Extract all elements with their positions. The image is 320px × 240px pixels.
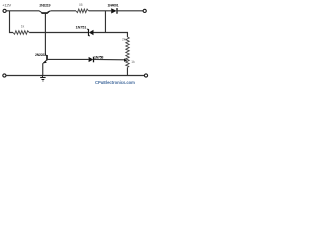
svg-text:1k: 1k (21, 25, 25, 29)
potentiometer R3 (2k) vertical zigzag (126, 37, 129, 67)
transistor Q2 2N2222 (43, 55, 48, 64)
pot wiper arrow (124, 58, 127, 61)
diode D1 1N4001 (111, 8, 117, 14)
wire: D1 cathode to output terminal (118, 10, 143, 12)
wire bottom ground rail (6, 75, 144, 77)
wire top rail: input terminal to Q1 collector (6, 10, 39, 12)
diode D3 1N758 (89, 57, 94, 63)
svg-text:+12V: +12V (2, 3, 11, 8)
wire: left branch down from top rail to R1 (10, 11, 14, 33)
wire: pot bottom to ground rail (126, 67, 128, 75)
zener diode D2 1N751 (87, 29, 93, 36)
resistor R2 (.5) zigzag (76, 9, 89, 13)
transistor Q1 2N2219 (39, 10, 50, 13)
svg-text:1N751: 1N751 (76, 26, 87, 30)
wire: Q1 base / Q2 collector vertical (44, 13, 46, 55)
node output terminal (143, 9, 146, 12)
wire: Q2 base to diode D3 anode (48, 58, 89, 60)
svg-text:05: 05 (79, 3, 83, 7)
ground symbol (40, 76, 45, 82)
node negative output terminal (bottom right) (144, 74, 147, 77)
svg-text:1N758: 1N758 (94, 55, 103, 59)
wire top rail: R2 to diode D1 anode (89, 10, 112, 12)
wire junction: vertical from top rail down to mid bus (104, 11, 106, 33)
svg-text:1N4001: 1N4001 (108, 3, 119, 7)
wire mid bus: D2 anode to potentiometer top (94, 33, 128, 38)
wire: Q2 emitter down to ground rail (42, 63, 44, 75)
svg-text:2N2219: 2N2219 (39, 3, 50, 7)
svg-text:CPuElectronics.com: CPuElectronics.com (95, 80, 135, 85)
svg-text:2k: 2k (122, 38, 126, 42)
node +12V input terminal (3, 9, 6, 12)
wire top rail: Q1 emitter to sense resistor R2 (51, 10, 76, 12)
svg-text:2N2222: 2N2222 (35, 53, 46, 57)
svg-text:1k: 1k (131, 60, 135, 64)
wire: D3 cathode to pot wiper (94, 58, 125, 60)
resistor R1 (1k) zigzag (13, 31, 29, 35)
wire mid bus: R1 to zener D2 cathode (Q1 base node) (29, 32, 88, 34)
node negative terminal (bottom left) (3, 74, 6, 77)
